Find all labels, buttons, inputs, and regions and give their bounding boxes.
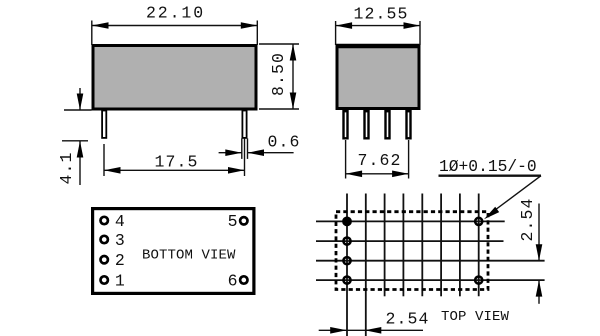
top view grid column 4 [402, 194, 404, 297]
front view pin 3 [386, 111, 390, 138]
svg-text:12.55: 12.55 [353, 5, 408, 24]
dim 22.10 extension lines [91, 21, 93, 46]
dim 8.50 extension lines [259, 43, 299, 45]
top view grid column 8 [478, 194, 480, 297]
top view grid row 4 [316, 279, 545, 281]
dim 12.55 arrows [336, 22, 353, 29]
svg-text:7.62: 7.62 [357, 151, 401, 170]
dim 2.54 right arrows [536, 244, 543, 261]
dim 12.55 extension lines [335, 21, 337, 45]
front view pin 1 [344, 111, 348, 138]
svg-text:3: 3 [115, 231, 126, 250]
svg-text:2.54: 2.54 [518, 197, 537, 241]
svg-text:TOP VIEW: TOP VIEW [441, 309, 510, 325]
svg-text:5: 5 [228, 212, 239, 231]
side view body [93, 46, 256, 110]
top view grid row 1 [316, 220, 505, 222]
svg-text:BOTTOM VIEW: BOTTOM VIEW [142, 248, 236, 264]
svg-text:6: 6 [228, 271, 239, 290]
bottom view pin 1 pad [101, 276, 108, 283]
top view pad A3 [343, 257, 350, 264]
top view pad A2 [343, 238, 350, 245]
dim 2.54 bottom arrows [330, 327, 347, 334]
dim 7.62 line [346, 173, 409, 175]
dim 4.1 lines [79, 88, 81, 110]
side view left pin [102, 111, 106, 138]
svg-text:0.6: 0.6 [267, 133, 300, 152]
svg-text:22.10: 22.10 [146, 4, 205, 23]
top view grid row 3 [316, 260, 545, 262]
dim 17.5 arrows [104, 167, 121, 174]
top view dashed outline [336, 212, 488, 290]
hole label underline [439, 174, 542, 176]
dim 4.1 extension lines [64, 109, 92, 111]
svg-text:8.50: 8.50 [269, 52, 288, 96]
front view body [337, 46, 419, 109]
dim 7.62 extension lines [345, 140, 347, 179]
dim 2.54 right line upper [538, 204, 540, 261]
dim 2.54 bottom line [319, 329, 423, 331]
bottom view pin 3 pad [101, 236, 108, 243]
top view grid column 2 [365, 194, 367, 336]
dim 8.50 arrows [290, 44, 297, 61]
top view pad B1 [475, 218, 482, 225]
bottom view pin 2 pad [101, 256, 108, 263]
svg-text:2.54: 2.54 [386, 310, 430, 329]
dim 7.62 arrows [346, 171, 363, 178]
top view grid column 3 [384, 194, 386, 297]
top view grid column 1 [346, 194, 348, 336]
front view pin 4 [407, 111, 411, 138]
top view pad A1 filled [342, 217, 352, 227]
top view grid column 6 [440, 194, 442, 297]
dim 0.6 lines [219, 152, 242, 154]
dim 0.6 extension lines [241, 138, 243, 159]
svg-text:4: 4 [115, 212, 126, 231]
side view right pin [242, 111, 246, 138]
top view grid row 2 [316, 240, 504, 242]
top view grid column 7 [459, 194, 461, 297]
hole label leader line [489, 176, 541, 215]
hole label leader arrow [484, 207, 499, 220]
dim 22.10 arrows [92, 22, 109, 29]
dim 17.5 extension lines [103, 144, 105, 176]
bottom view pin 4 pad [101, 217, 108, 224]
bottom view pin 5 pad [240, 217, 247, 224]
dim 2.54 right line lower [538, 280, 540, 304]
dim 22.10 line [92, 25, 257, 27]
svg-text:17.5: 17.5 [154, 153, 198, 172]
svg-text:1: 1 [115, 272, 126, 291]
front view pin 2 [365, 111, 369, 138]
dim 17.5 line [104, 169, 245, 171]
svg-text:1Ø+0.15/-0: 1Ø+0.15/-0 [439, 157, 537, 176]
top view pad A4 [343, 277, 350, 284]
top view grid column 5 [421, 194, 423, 297]
top view pad B4 [475, 277, 482, 284]
dim 4.1 arrows [77, 94, 84, 111]
dim 0.6 arrows [225, 149, 242, 156]
svg-text:4.1: 4.1 [57, 151, 76, 184]
bottom view pin 6 pad [240, 276, 247, 283]
bottom view outline [93, 209, 254, 294]
dim 8.50 line [292, 44, 294, 109]
svg-text:2: 2 [115, 251, 126, 270]
dim 12.55 line [336, 25, 420, 27]
